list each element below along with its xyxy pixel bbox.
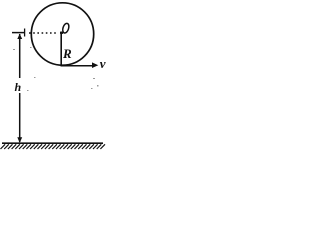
radius line R	[60, 32, 62, 67]
down arrowhead	[17, 137, 22, 143]
svg-text:R: R	[62, 46, 72, 61]
top reference bar	[12, 32, 25, 34]
tick at bar end	[24, 29, 26, 37]
svg-text:v: v	[100, 56, 106, 71]
h dimension line upper segment	[19, 34, 21, 78]
h dimension line lower segment	[19, 93, 21, 142]
ground hatching	[1, 144, 106, 149]
velocity arrowhead	[92, 62, 98, 68]
scan noise specks	[13, 47, 99, 91]
ground line	[2, 142, 103, 144]
label O	[62, 23, 70, 34]
velocity line	[61, 65, 94, 67]
circle (ball outline)	[31, 3, 93, 65]
up arrowhead	[17, 34, 22, 39]
center dot O	[60, 32, 63, 34]
dotted line from h-bar to center	[29, 32, 58, 34]
svg-text:h: h	[15, 80, 22, 94]
